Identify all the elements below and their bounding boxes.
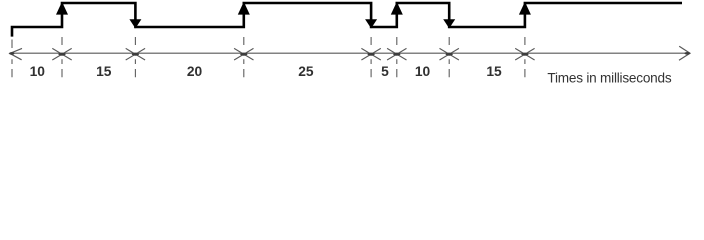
svg-text:15: 15 — [96, 64, 112, 79]
svg-text:10: 10 — [415, 64, 431, 79]
svg-text:20: 20 — [187, 64, 203, 79]
svg-text:5: 5 — [381, 64, 389, 79]
svg-text:25: 25 — [298, 64, 314, 79]
svg-text:15: 15 — [486, 64, 502, 79]
svg-text:10: 10 — [30, 64, 46, 79]
svg-text:Times in milliseconds: Times in milliseconds — [547, 70, 671, 85]
